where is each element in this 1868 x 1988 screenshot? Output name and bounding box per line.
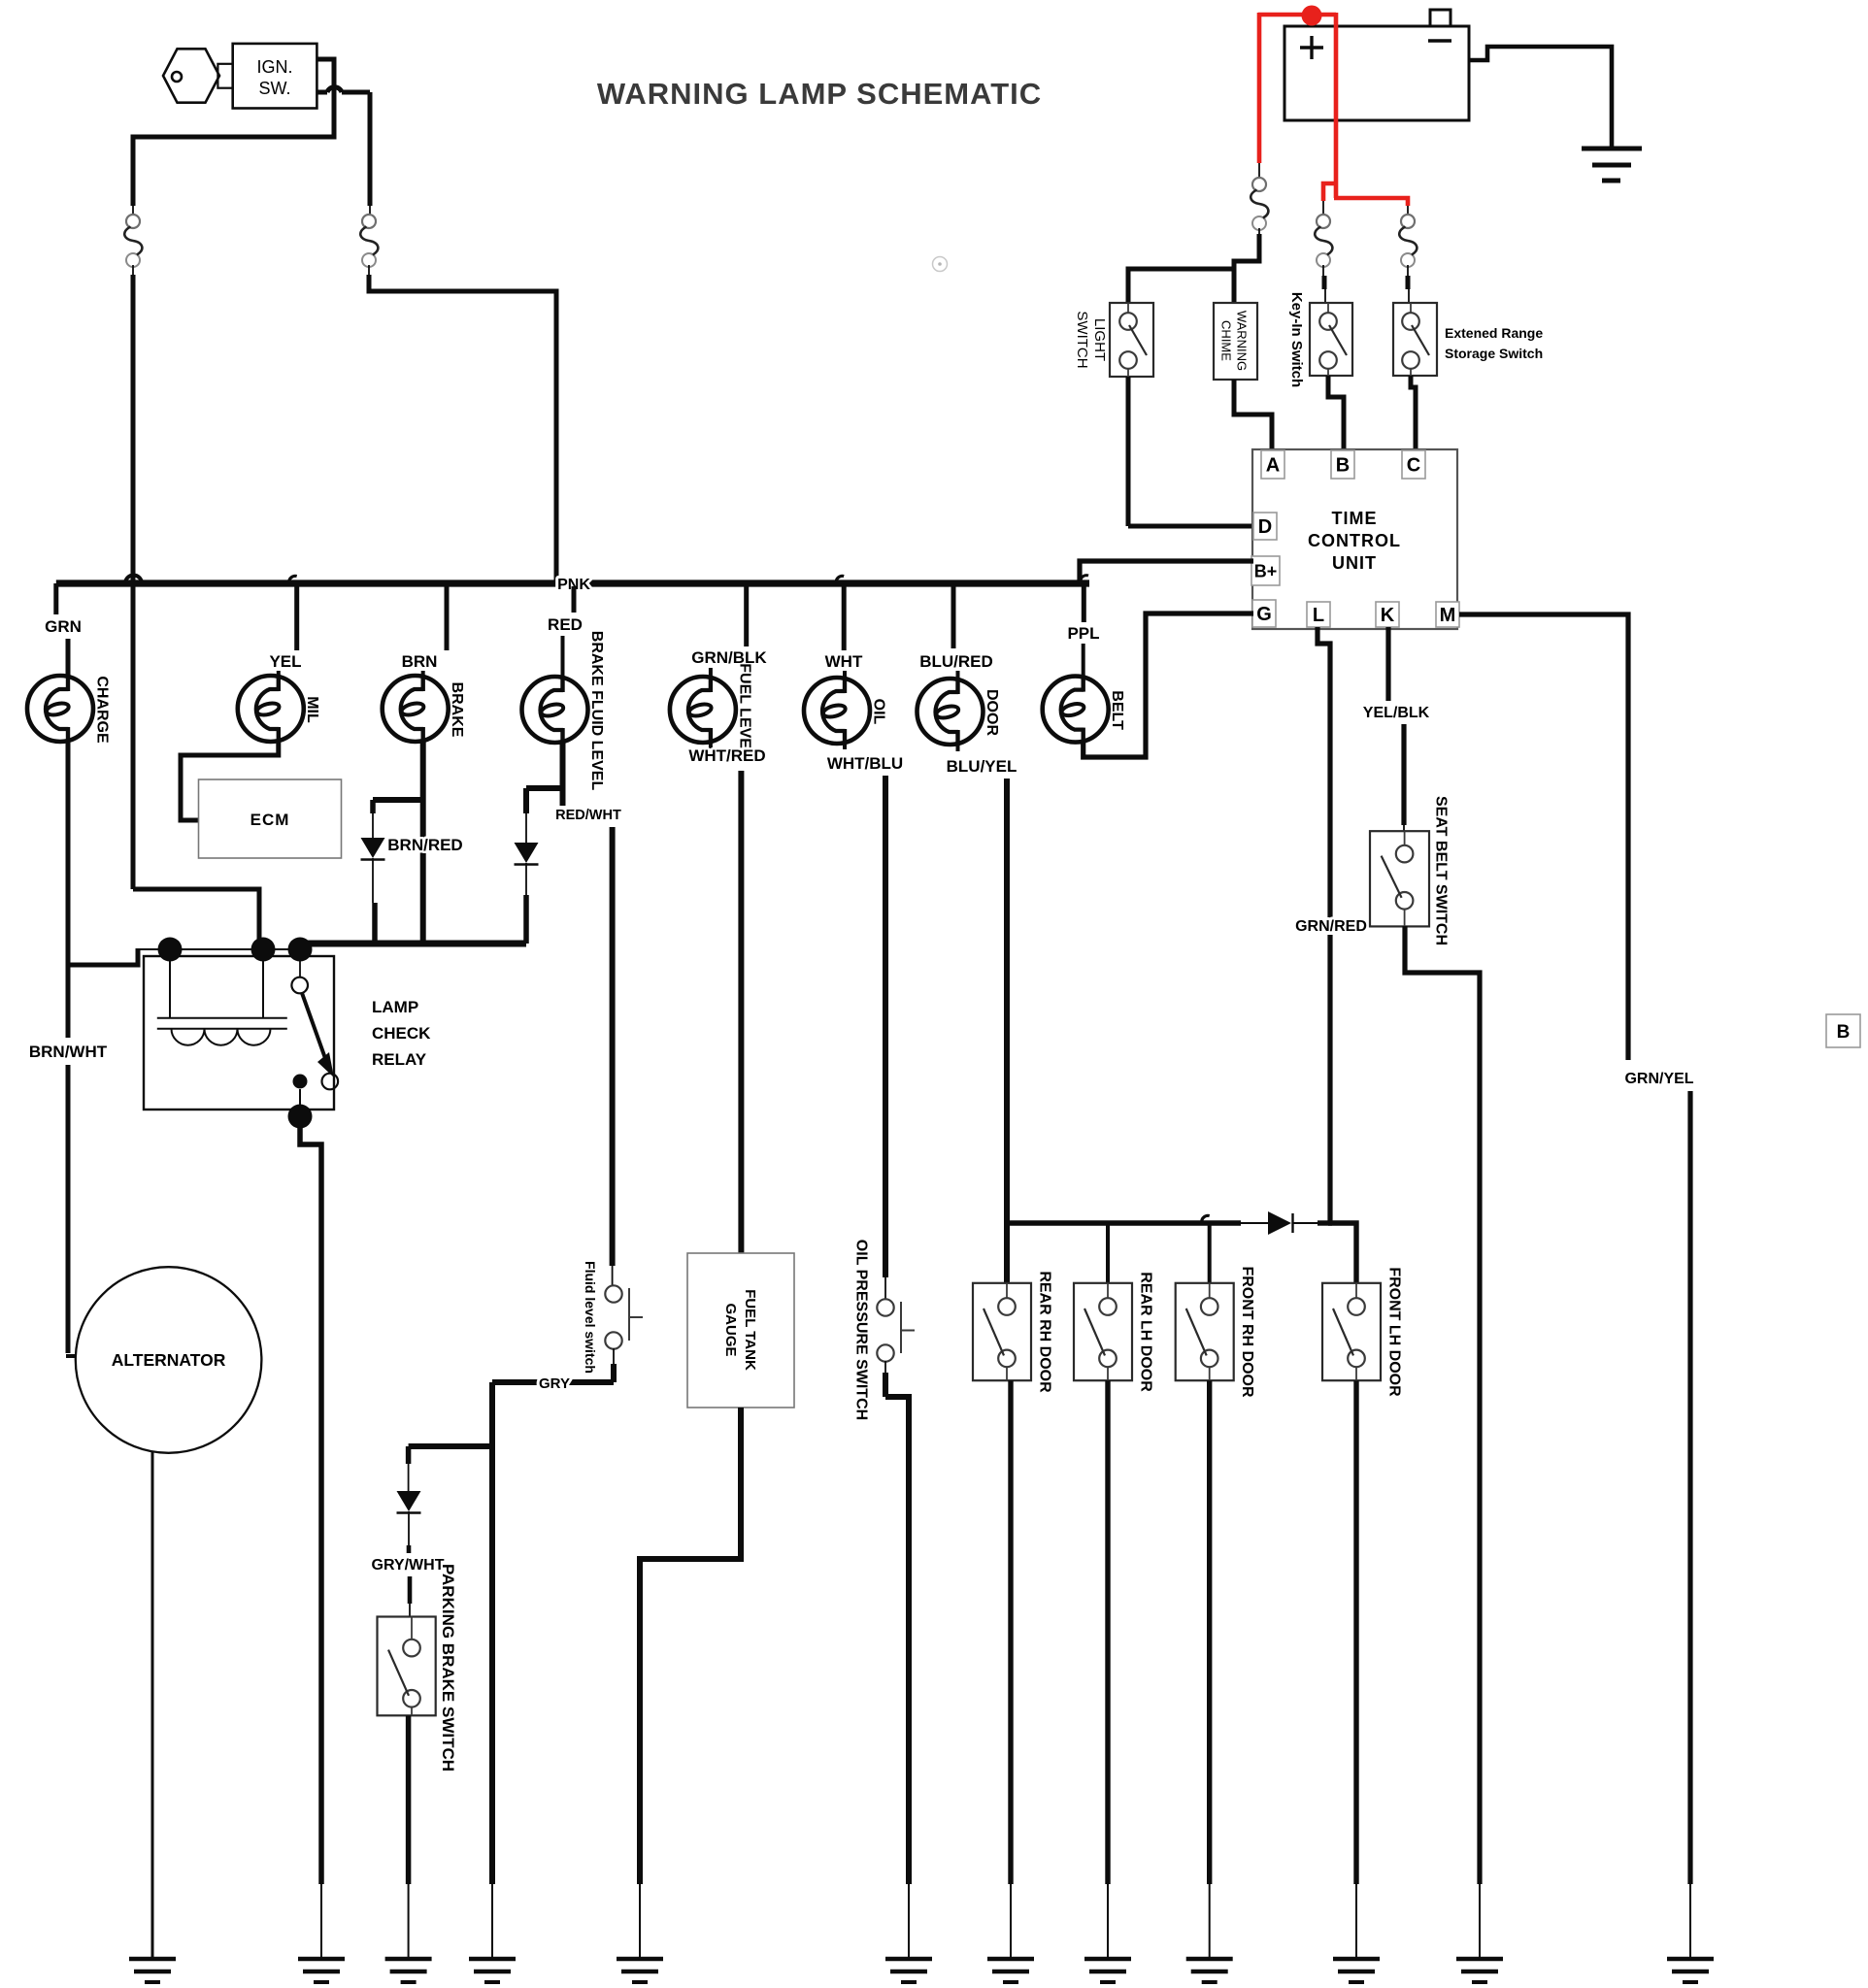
- svg-text:DOOR: DOOR: [984, 689, 1000, 736]
- svg-text:G: G: [1256, 604, 1272, 625]
- svg-text:WARNING: WARNING: [1234, 311, 1249, 371]
- svg-text:RELAY: RELAY: [372, 1050, 427, 1069]
- svg-text:RED/WHT: RED/WHT: [555, 808, 621, 823]
- svg-text:RED: RED: [548, 615, 583, 634]
- svg-text:Storage Switch: Storage Switch: [1445, 346, 1543, 361]
- svg-text:PARKING BRAKE SWITCH: PARKING BRAKE SWITCH: [439, 1564, 457, 1772]
- svg-text:WARNING LAMP SCHEMATIC: WARNING LAMP SCHEMATIC: [597, 77, 1042, 111]
- svg-text:TIME: TIME: [1332, 509, 1378, 528]
- svg-text:REAR RH DOOR: REAR RH DOOR: [1036, 1271, 1052, 1393]
- svg-text:Extened Range: Extened Range: [1445, 325, 1543, 341]
- svg-text:BRN: BRN: [402, 652, 438, 671]
- svg-text:Key-In Switch: Key-In Switch: [1288, 292, 1305, 387]
- svg-text:A: A: [1266, 455, 1280, 477]
- svg-text:BRN/WHT: BRN/WHT: [29, 1043, 108, 1061]
- svg-text:LIGHT: LIGHT: [1091, 318, 1108, 361]
- svg-text:LAMP: LAMP: [372, 998, 418, 1016]
- svg-text:FRONT RH DOOR: FRONT RH DOOR: [1239, 1266, 1255, 1398]
- svg-text:BRAKE: BRAKE: [449, 682, 465, 738]
- svg-text:FUEL LEVEL: FUEL LEVEL: [736, 663, 752, 758]
- svg-text:YEL/BLK: YEL/BLK: [1363, 705, 1430, 721]
- svg-text:Fluid level switch: Fluid level switch: [583, 1261, 598, 1374]
- svg-text:SWITCH: SWITCH: [1074, 311, 1090, 368]
- svg-text:C: C: [1407, 455, 1420, 477]
- svg-text:PPL: PPL: [1067, 624, 1099, 643]
- svg-text:GRN/YEL: GRN/YEL: [1624, 1071, 1693, 1087]
- svg-text:D: D: [1258, 516, 1272, 538]
- svg-text:SW.: SW.: [258, 79, 290, 98]
- svg-text:BLU/RED: BLU/RED: [919, 652, 993, 671]
- svg-text:IGN.: IGN.: [256, 57, 292, 77]
- svg-text:BLU/YEL: BLU/YEL: [947, 757, 1017, 776]
- svg-text:GRN: GRN: [45, 617, 82, 636]
- svg-text:WHT: WHT: [825, 652, 863, 671]
- svg-text:L: L: [1313, 605, 1324, 626]
- svg-text:YEL: YEL: [269, 652, 301, 671]
- svg-text:BRN/RED: BRN/RED: [387, 836, 462, 854]
- svg-text:FUEL TANK: FUEL TANK: [742, 1289, 758, 1371]
- svg-text:ECM: ECM: [250, 811, 290, 829]
- svg-text:CHIME: CHIME: [1218, 320, 1233, 361]
- svg-text:FRONT LH DOOR: FRONT LH DOOR: [1385, 1267, 1402, 1397]
- svg-text:M: M: [1440, 605, 1456, 626]
- svg-text:B: B: [1336, 455, 1350, 477]
- svg-text:GAUGE: GAUGE: [722, 1303, 739, 1356]
- svg-text:GRN/RED: GRN/RED: [1295, 918, 1367, 935]
- svg-text:BELT: BELT: [1109, 690, 1125, 730]
- svg-text:REAR LH DOOR: REAR LH DOOR: [1137, 1272, 1153, 1392]
- svg-text:UNIT: UNIT: [1332, 553, 1377, 573]
- svg-text:OIL PRESSURE SWITCH: OIL PRESSURE SWITCH: [852, 1240, 869, 1420]
- svg-text:ALTERNATOR: ALTERNATOR: [112, 1350, 226, 1370]
- svg-text:CHECK: CHECK: [372, 1024, 431, 1043]
- svg-text:K: K: [1381, 605, 1395, 626]
- svg-text:GRN/BLK: GRN/BLK: [691, 648, 767, 667]
- svg-text:B: B: [1837, 1022, 1851, 1043]
- svg-text:B+: B+: [1254, 561, 1278, 580]
- svg-text:CONTROL: CONTROL: [1308, 531, 1401, 550]
- svg-text:WHT/RED: WHT/RED: [688, 746, 765, 765]
- svg-text:GRY/WHT: GRY/WHT: [372, 1557, 445, 1574]
- svg-text:BRAKE FLUID LEVEL: BRAKE FLUID LEVEL: [588, 631, 605, 791]
- svg-text:SEAT BELT SWITCH: SEAT BELT SWITCH: [1432, 796, 1449, 945]
- svg-text:WHT/BLU: WHT/BLU: [827, 754, 903, 773]
- svg-text:MIL: MIL: [304, 696, 320, 723]
- svg-text:OIL: OIL: [870, 699, 886, 725]
- svg-text:GRY: GRY: [539, 1375, 570, 1392]
- svg-text:CHARGE: CHARGE: [93, 676, 110, 744]
